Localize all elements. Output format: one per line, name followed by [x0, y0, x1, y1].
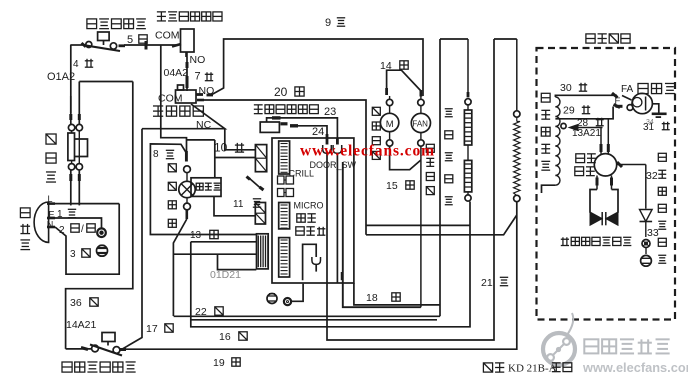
svg-text:O1A2: O1A2	[47, 71, 75, 83]
label 20白	[274, 85, 304, 99]
svg-text:34: 34	[646, 119, 654, 126]
board plug contacts row2	[278, 189, 294, 197]
wire into stripe-box a	[191, 241, 257, 243]
HV transformer label 高压变压器	[541, 93, 550, 170]
label 36蓝	[70, 297, 98, 309]
magnetron V1	[616, 93, 667, 117]
label 9棕	[325, 17, 345, 29]
wire 30红	[555, 93, 617, 98]
magnetron label 磁控管	[638, 83, 675, 93]
svg-text:32: 32	[646, 170, 658, 182]
wire 22蓝 bus	[174, 315, 440, 317]
wire 8棕 frame corner A	[150, 144, 256, 235]
label 17蓝	[146, 323, 173, 335]
wire cap top leads	[601, 119, 608, 154]
svg-text:7: 7	[195, 71, 201, 83]
fan motor FAN	[411, 96, 430, 146]
label 30红	[560, 82, 587, 94]
svg-text:F: F	[615, 96, 621, 107]
label 双向二极管组件	[561, 237, 632, 245]
label 11棕	[233, 199, 261, 210]
label 4红	[73, 59, 93, 70]
wire 24	[290, 126, 327, 140]
fan motor label 风扇电机	[426, 144, 434, 194]
label O1A2	[47, 71, 75, 83]
wire 23	[267, 118, 338, 140]
label 01D21	[210, 269, 241, 281]
connector X-box top	[255, 145, 266, 172]
label 32	[646, 170, 658, 182]
monitor switch S2	[176, 85, 214, 103]
label 29红	[563, 105, 590, 117]
label 10红	[214, 141, 244, 155]
label CRILL	[289, 169, 315, 179]
svg-text:15: 15	[386, 180, 398, 192]
wire NC branch	[142, 104, 225, 129]
HV transformer secondary winding	[542, 97, 561, 193]
label 14黑	[380, 60, 408, 72]
label DOOR_SW	[310, 160, 357, 170]
HV diode assembly label 高压二极管组件	[658, 153, 666, 263]
red watermark www.elecfans.com	[300, 143, 435, 160]
label E	[49, 210, 55, 220]
wire 36蓝 elbow	[66, 82, 133, 349]
svg-text:04A2: 04A2	[164, 67, 189, 79]
grey watermark url	[582, 360, 688, 375]
svg-text:16: 16	[219, 331, 231, 343]
HV danger label 高压危险	[586, 34, 630, 43]
wire E earth row	[55, 218, 102, 228]
quartz label 石英管组件	[445, 109, 453, 205]
HV dashed box	[537, 48, 676, 320]
label L	[48, 194, 53, 204]
svg-text:33: 33	[647, 227, 659, 239]
label 24	[312, 126, 324, 138]
board connector strip2	[279, 203, 290, 229]
wire motors common	[390, 146, 421, 307]
svg-text:3: 3	[70, 249, 76, 260]
fuse wires top	[71, 82, 80, 125]
label NO monitor	[199, 85, 215, 97]
wire bus b	[191, 319, 437, 321]
svg-text:21: 21	[481, 277, 493, 289]
svg-text:29: 29	[563, 105, 575, 117]
earth screw HV	[641, 255, 652, 266]
label 13A21	[572, 128, 601, 139]
label 14A21	[66, 319, 97, 331]
label 13白	[190, 230, 218, 241]
terminal dot circle	[97, 228, 106, 237]
svg-text:19: 19	[213, 357, 225, 369]
label NO upper	[190, 54, 206, 66]
label 33	[647, 227, 659, 239]
HV diode D1	[640, 210, 653, 238]
filament tap terminal	[561, 123, 566, 128]
wire 9棕	[211, 39, 423, 96]
board ground terminals	[267, 284, 303, 305]
board plug contacts row1	[278, 176, 294, 184]
fuse wires bottom	[71, 170, 80, 205]
board connector CRILL strip	[279, 141, 290, 174]
cavity thermostat TH1	[70, 32, 125, 51]
transformer box 变压器	[191, 178, 221, 197]
svg-text:FAN: FAN	[412, 120, 428, 129]
label 23	[324, 106, 336, 118]
power cord label 电源线	[20, 208, 30, 250]
label 22蓝	[195, 306, 223, 318]
second interlock switch S3	[260, 122, 287, 132]
svg-text:CRILL: CRILL	[289, 169, 315, 179]
svg-text:/: /	[81, 224, 84, 235]
label 28红	[577, 118, 604, 129]
svg-text:24: 24	[312, 126, 324, 138]
label F	[615, 96, 621, 107]
wire 29红	[555, 105, 620, 119]
svg-text:FA: FA	[621, 84, 634, 95]
wire 20白	[204, 100, 366, 235]
wire N diagonal	[55, 204, 119, 275]
svg-text:DOOR_SW: DOOR_SW	[310, 160, 357, 170]
wire lamp bottom 13白	[173, 219, 186, 316]
door switch contacts	[323, 134, 342, 153]
svg-text:01D21: 01D21	[210, 269, 241, 281]
svg-text:4: 4	[73, 59, 79, 70]
svg-text:E: E	[49, 210, 55, 220]
wire L row	[53, 203, 119, 205]
svg-text:N: N	[47, 220, 54, 230]
label 5黄	[127, 34, 147, 46]
label COM lower	[158, 93, 183, 105]
first interlock label 第一连锁开关	[157, 12, 222, 21]
svg-text:14: 14	[380, 60, 392, 72]
wire 19白	[123, 202, 517, 349]
quartz heater R1	[464, 39, 471, 201]
svg-text:COM: COM	[155, 30, 180, 42]
svg-text:30: 30	[560, 82, 572, 94]
svg-text:www.elecfans.com: www.elecfans.com	[582, 360, 688, 375]
wire 14黑 link	[387, 70, 421, 96]
svg-text:M: M	[386, 119, 394, 130]
label N2黄绿	[47, 220, 95, 237]
label 8棕	[153, 149, 174, 160]
HV capacitor C1	[594, 154, 646, 190]
quartz loop top	[440, 38, 517, 40]
indicator lamp DS1	[179, 166, 195, 219]
board connector strip3	[279, 238, 290, 277]
svg-text:13: 13	[190, 230, 202, 241]
wire door-sw drops	[327, 153, 337, 283]
wire bus-18黑 a	[439, 39, 441, 316]
wire NC to connector	[225, 129, 256, 150]
grey watermark logo circle	[543, 313, 575, 365]
indicator lamp label 指示灯泡	[168, 164, 176, 228]
screw terminal 33	[642, 240, 650, 255]
wire bus B6	[327, 39, 494, 340]
label 19白	[213, 357, 240, 369]
svg-text:14A21: 14A21	[66, 319, 97, 331]
label 21棕	[481, 277, 508, 289]
board ground fork	[303, 244, 342, 280]
wire interlock-to-monitor	[186, 57, 188, 91]
turntable motor label 转盘电机	[372, 107, 380, 159]
svg-text:13A21: 13A21	[572, 128, 601, 139]
wire into stripe-box c	[218, 255, 257, 270]
svg-text:22: 22	[195, 306, 207, 318]
label COM upper	[155, 30, 180, 42]
svg-text:11: 11	[233, 199, 244, 210]
svg-text:9: 9	[325, 17, 331, 29]
caption 美的KD21B-A	[483, 363, 571, 375]
wire to triac assembly	[366, 224, 470, 226]
first interlock switch S1	[172, 29, 194, 57]
earth screw symbol	[97, 245, 108, 256]
svg-text:20: 20	[274, 85, 288, 99]
svg-text:8: 8	[153, 149, 159, 160]
wire into stripe-box d	[173, 253, 256, 255]
cavity thermostat label 炉腔温控器	[87, 19, 146, 29]
wire thermostat left lead	[66, 348, 91, 350]
svg-text:www.elecfans.com: www.elecfans.com	[300, 143, 435, 160]
wire 16蓝 bus	[191, 202, 470, 327]
svg-text:MICRO: MICRO	[294, 201, 324, 211]
label MICRO 控制 电路板	[294, 201, 326, 236]
label 1棕	[57, 209, 76, 220]
svg-text:17: 17	[146, 323, 158, 335]
transformer bottom lead	[214, 196, 255, 215]
fuse label 保险管	[46, 134, 56, 182]
wire 4红 fuse-left feed	[70, 45, 72, 113]
wire COM feed corner B	[161, 45, 187, 151]
turntable motor M	[380, 96, 398, 146]
svg-text:L: L	[48, 194, 53, 204]
svg-text:36: 36	[70, 297, 82, 309]
control board outline	[272, 138, 354, 283]
arrow 13A21	[568, 124, 603, 131]
wire to HV primary	[366, 215, 517, 235]
svg-text:NO: NO	[190, 54, 206, 66]
magnetron thermostat label 磁控管温控器	[62, 362, 136, 372]
connector X-box mid	[255, 203, 265, 225]
magnetron thermostat TH2	[81, 333, 126, 356]
wire cap right drop	[645, 165, 647, 209]
fuse F1	[68, 124, 88, 170]
grey watermark 电子发烧友	[584, 339, 669, 353]
label 15白	[386, 180, 414, 192]
transformer top lead	[215, 140, 256, 178]
label 04A2	[164, 67, 189, 79]
label 18黑	[366, 292, 400, 304]
wire 17蓝 vertical	[122, 129, 143, 350]
HV primary coil L1	[514, 39, 520, 202]
svg-text:18: 18	[366, 292, 378, 304]
connector stripe-box	[257, 234, 269, 269]
wire board-bottom thick L	[343, 162, 421, 307]
label 3蓝	[70, 249, 90, 260]
monitor switch label 监控开关	[153, 106, 203, 116]
wire transformer feed	[187, 139, 215, 141]
second interlock label 第二连锁开关	[254, 105, 318, 114]
wire fuse-right riser	[79, 81, 133, 83]
HV capacitor label 高压电容	[575, 154, 596, 176]
power plug	[34, 202, 55, 242]
wire board right corner drop	[354, 283, 440, 305]
svg-text:23: 23	[324, 106, 336, 118]
label FA	[621, 84, 634, 95]
label 7红	[195, 71, 214, 83]
label NC	[196, 119, 212, 131]
transformer link plug	[247, 177, 264, 191]
wire thermostat-COM row	[124, 41, 176, 50]
label 31红	[643, 119, 670, 133]
bidirectional diode assembly	[590, 190, 618, 226]
svg-text:KD 21B-A: KD 21B-A	[508, 363, 557, 375]
label 16蓝	[219, 331, 247, 343]
